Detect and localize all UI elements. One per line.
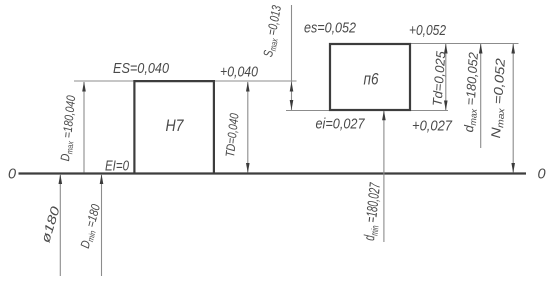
svg-text:п6: п6 — [364, 70, 379, 89]
wire es extension line — [411, 43, 519, 45]
dimension Nmax line — [511, 44, 515, 174]
svg-text:+0,040: +0,040 — [220, 65, 258, 81]
wire ES extension line — [74, 80, 297, 82]
dimension phi180 label — [38, 205, 62, 245]
svg-text:0: 0 — [538, 167, 546, 183]
dimension Dmin label — [78, 203, 105, 251]
dimension Td label — [430, 50, 449, 107]
dimension dmin line — [382, 110, 386, 242]
svg-text:EI=0: EI=0 — [105, 159, 129, 175]
H7 tolerance zone box — [134, 81, 214, 173]
n6 tolerance zone box — [330, 44, 410, 110]
svg-text:+0,052: +0,052 — [409, 23, 446, 39]
dimension Nmax label — [488, 57, 509, 139]
dimension TD label — [223, 113, 242, 158]
dimension phi180 line — [59, 174, 63, 276]
dimension Dmax label — [58, 95, 80, 162]
svg-text:+0,027: +0,027 — [412, 119, 453, 135]
dimension Td line — [444, 44, 448, 111]
svg-text:es=0,052: es=0,052 — [304, 21, 356, 37]
svg-text:0: 0 — [8, 167, 16, 183]
dimension Smax line — [290, 5, 294, 110]
wire ei extension line — [286, 110, 448, 112]
dimension Smax label — [260, 4, 285, 59]
dimension dmax label — [461, 51, 482, 133]
dimension TD line — [246, 82, 250, 174]
dimension dmin label — [361, 182, 386, 242]
svg-text:H7: H7 — [166, 116, 184, 135]
dimension Dmin line — [100, 174, 104, 276]
dimension Dmax line — [82, 82, 86, 173]
node zero line — [19, 172, 527, 174]
dimension dmax line — [479, 44, 483, 149]
svg-text:ES=0,040: ES=0,040 — [113, 61, 169, 77]
svg-text:ei=0,027: ei=0,027 — [316, 117, 366, 133]
